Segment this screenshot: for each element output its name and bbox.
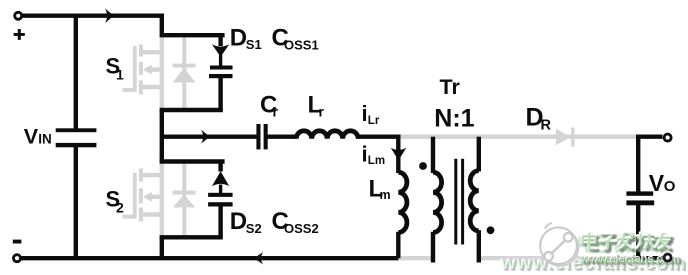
- svg-text:Lr: Lr: [368, 115, 380, 127]
- svg-text:O: O: [664, 178, 676, 195]
- svg-text:IN: IN: [38, 132, 52, 147]
- svg-text:2: 2: [116, 200, 124, 216]
- svg-text:D: D: [230, 208, 247, 235]
- svg-text:i: i: [362, 141, 368, 166]
- svg-text:V: V: [24, 125, 39, 149]
- svg-text:m: m: [380, 188, 391, 202]
- svg-text:r: r: [319, 104, 325, 120]
- svg-text:1: 1: [116, 67, 124, 83]
- svg-text:D: D: [230, 24, 247, 51]
- svg-text:OSS1: OSS1: [284, 38, 319, 53]
- svg-text:V: V: [649, 170, 665, 196]
- svg-text:OSS2: OSS2: [284, 221, 319, 236]
- svg-text:Tr: Tr: [440, 75, 461, 99]
- svg-text:Lm: Lm: [368, 155, 385, 167]
- svg-text:R: R: [541, 118, 552, 134]
- svg-text:r: r: [273, 104, 279, 120]
- svg-text:i: i: [362, 101, 368, 126]
- svg-text:N:1: N:1: [434, 105, 474, 133]
- svg-text:S2: S2: [246, 221, 262, 236]
- svg-text:S1: S1: [246, 37, 262, 52]
